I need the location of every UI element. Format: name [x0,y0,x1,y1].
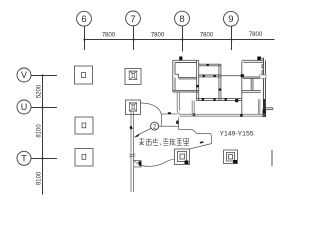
wire: axis 7 line [133,26,135,50]
wall: section A room divider (y 78) [178,78,196,79]
wire: leader B from hook to square N1 [176,118,211,149]
column square S3 (axis 6/T) [75,149,93,167]
wall: row2 bottom (y 99) [197,98,242,100]
wire: leader from bubble 2 to drop line with arrowhead [134,128,151,137]
node: black tick at divider foot [193,113,195,116]
wire: short vertical segment right of N2 [271,150,273,166]
wire: arrow leader to square N1 [134,159,175,166]
joint symbol X2 (axis 7/U) [126,100,141,115]
column (black) on axis 8 [179,57,182,61]
label: CJK annotation (fake glyph strokes) [139,138,189,146]
svg-text:5200: 5200 [37,84,43,98]
joint symbol X1 (axis 7/V) [125,69,141,85]
svg-text:Y149-Y155: Y149-Y155 [220,131,254,138]
wire: single line between corridor and section B [221,75,242,77]
wire: axis 6 line [84,26,86,50]
wall: section B mid horizontal [242,90,261,92]
column (black) row2 bottom right [235,99,238,102]
svg-text:T: T [21,154,27,164]
wall: stub wing right [265,108,272,110]
svg-text:2: 2 [153,123,157,130]
node: dim tick 8 [181,38,183,40]
svg-text:7800: 7800 [151,32,165,38]
wall: section B left [241,61,243,114]
wall: corridor right / room divider [219,64,221,100]
node: dim tick 9 [230,38,232,40]
column (black) near axis at section B top [257,57,263,61]
column (black) section B bottom-left [241,74,244,77]
svg-text:8: 8 [179,14,184,25]
wire: callout riser [160,114,162,126]
svg-text:6: 6 [81,14,86,25]
grid bubble 9 [224,11,239,26]
node: dim tick U [41,106,43,108]
column (black) building bottom-right corner [263,110,266,118]
node: break ticks on drop line [129,154,135,157]
wall: section B top [242,60,264,62]
wire: door arc from X2 [141,103,162,114]
node: dim tick V [41,74,43,76]
wall: section B bottom with opening [243,75,266,79]
svg-text:9: 9 [228,14,233,25]
nested square N2 (axis 9/T) [224,150,238,164]
wall: small pair above bottom wall right [258,99,260,114]
svg-text:7800: 7800 [200,32,214,38]
node: black ticks corridor bottom [203,75,216,77]
node: black dash on drop line [130,126,133,129]
wall: pilasters on section B right [262,65,264,74]
wire: axis V line [31,75,57,77]
wire: axis 8 line [182,26,184,51]
grid bubble T [17,151,31,165]
wall: building bottom [180,114,266,116]
grid bubble 6 [77,11,92,26]
node: black tick bottom wall (section B left) [240,114,242,117]
svg-text:V: V [21,70,27,80]
node: black ticks row2 bottom [202,98,227,101]
column square S2 (axis 6, mid) [75,117,93,134]
wire: axis T line [31,158,57,160]
wall: section A left [173,60,175,92]
wall: corridor top [199,64,221,66]
svg-text:8100: 8100 [37,124,43,138]
grid bubble 7 [126,11,141,26]
node: dim tick T [41,157,43,159]
svg-text:7: 7 [130,14,135,25]
svg-text:7800: 7800 [102,32,116,38]
wall: corridor bottom [199,75,221,77]
node: black tick corridor top [207,64,209,66]
wall: section A top [173,60,199,62]
callout bubble 2 [151,122,159,130]
node: black square on divider [219,89,222,91]
wire: upper leader line to wall hook [161,113,177,115]
grid bubble V [17,68,31,82]
wire: left dimension line [42,76,44,195]
grid bubble 8 [175,11,190,26]
grid bubble U [17,100,31,114]
node: dim tick 6 [83,38,85,40]
wire: top dimension line [85,39,275,41]
node: black dash on upper leader [168,112,171,114]
wall: bottom band left divider [192,101,194,115]
wall: section A bottom [173,91,199,92]
wall: section A right (shared with corridor) [197,60,199,100]
wire: callout horizontal line [159,125,179,127]
wall: section B right (dark) [263,58,265,117]
svg-text:8100: 8100 [37,171,43,185]
node: black tick on section A right wall [196,85,198,87]
column square S1 (axis 6/V) [75,66,93,84]
wall: descending pair below section A [177,92,180,114]
wire: double drop line from X2 [131,111,133,192]
wire: axis U line [31,107,57,109]
wall: section A step [175,74,178,77]
nested square N1 (axis 8/T) [175,149,190,165]
wire: axis 9 line [231,26,233,50]
wall: section B lower divider [251,78,253,90]
svg-text:7800: 7800 [249,32,263,38]
node: dim tick 7 [132,38,134,40]
svg-text:U: U [21,102,28,112]
